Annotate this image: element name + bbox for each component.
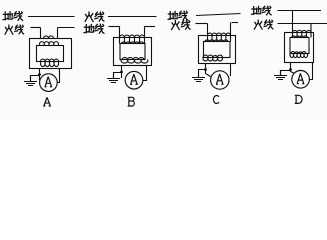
ammeter circle, circuit A [40, 74, 58, 92]
wire: earth line right segment with corner, circuit B [145, 26, 156, 28]
wire: left lead from case bottom to ammeter, circuit A [39, 69, 41, 81]
ammeter circle, circuit C [211, 71, 229, 89]
ground symbol, circuit B [113, 73, 115, 79]
winding bumps on motor bottom edge, circuit B [122, 58, 144, 60]
wire: ground branch, circuit A [31, 76, 40, 82]
coil vertical tails to motor top, circuit C [208, 36, 231, 42]
winding loops below motor bottom edge, circuit B [121, 60, 148, 64]
wire: right lead into appliance, circuit B [144, 27, 146, 38]
label: live wire text (huo xian) circuit B [85, 12, 93, 21]
winding arcs above motor top edge, circuit A [40, 42, 59, 46]
wire: live line right segment with corner, circuit C [232, 22, 239, 24]
junction dot (node), circuit D [289, 68, 292, 71]
coil on case top edge between leads, circuit B [120, 35, 145, 37]
winding loops below motor bottom edge, circuit A [41, 62, 59, 67]
wire: right lead from case bottom to ammeter, circuit C [230, 64, 232, 77]
option label D [295, 95, 302, 103]
coil vertical tails to motor top, circuit B [120, 38, 145, 44]
option label A [43, 97, 50, 106]
winding bumps on motor top edge, circuit C [205, 40, 228, 42]
wire: right lead from case bottom to ammeter, circuit B [143, 66, 147, 81]
ammeter letter A, circuit D [297, 73, 305, 83]
coil on case top edge between leads, circuit C [208, 33, 231, 35]
label: earth wire text (di xian) circuit D [252, 6, 261, 14]
wire: left lead into appliance, circuit C [207, 24, 209, 36]
wire: ground branch, circuit D [281, 71, 291, 76]
wire: left lead from earth line into appliance, circuit D [292, 11, 294, 33]
wire: earth line (top, to image edge) circuit D [278, 10, 322, 12]
wire: earth line (top) circuit A [28, 16, 75, 18]
motor core (inner rectangle), circuit D [290, 38, 309, 54]
label: live wire text (huo xian) circuit C [172, 21, 180, 30]
wire: ground branch, circuit C [199, 70, 206, 78]
label: live wire text (huo xian) circuit A [5, 25, 13, 34]
wire: live line (top) circuit B [108, 16, 157, 18]
wire: left lead into appliance, circuit B [119, 27, 121, 38]
coil vertical tails to motor top, circuit D [293, 33, 312, 38]
winding bumps on motor bottom edge, circuit A [41, 59, 59, 61]
winding bumps on motor top edge, circuit D [292, 36, 308, 38]
winding loops below motor bottom edge, circuit D [290, 54, 307, 58]
label: earth wire text (di xian) circuit C [168, 11, 177, 19]
winding bumps on motor bottom edge, circuit C [203, 55, 223, 57]
junction dot (node), circuit C [204, 68, 207, 71]
winding loops below motor bottom edge, circuit C [203, 58, 222, 61]
motor core (inner rectangle), circuit B [120, 44, 145, 60]
wire: live line (full, to image edge) circuit D [278, 23, 327, 25]
ammeter letter A, circuit B [130, 74, 138, 84]
wire: right lead into appliance, circuit A [57, 28, 59, 39]
wire: earth line (top, slightly tilted scan) circuit C [196, 14, 241, 16]
wire: right lead into appliance, circuit C [230, 23, 232, 36]
wire: live line left segment with corner, circuit C [196, 23, 208, 25]
wire: ground branch, circuit B [114, 73, 122, 79]
option label C [213, 96, 219, 104]
ammeter circle, circuit D [292, 71, 310, 89]
junction dot (node), circuit B [120, 71, 123, 74]
wire: right lead from case bottom to ammeter, circuit A [57, 69, 59, 83]
wire: right lead from live line into appliance, circuit D [310, 24, 312, 33]
wire: earth line left segment with corner, circuit B [109, 26, 120, 28]
appliance metal case (outer rectangle), circuit D [285, 33, 314, 63]
ground symbol, circuit C [198, 70, 200, 78]
coil on case top edge between leads, circuit D [293, 30, 312, 32]
wire: left lead from case bottom to ammeter, circuit D [291, 63, 295, 74]
label: earth wire text (di xian) circuit B [84, 25, 94, 33]
label: earth wire text (di xian) circuit A [3, 12, 12, 20]
appliance metal case (outer rectangle), circuit B [114, 38, 152, 66]
wire: left lead from case bottom to ammeter, circuit B [121, 66, 123, 79]
appliance metal case (outer rectangle), circuit A [30, 39, 72, 69]
ammeter letter A, circuit C [216, 74, 224, 84]
ground symbol, circuit A [30, 76, 32, 82]
motor core (inner rectangle), circuit A [37, 46, 64, 62]
wire: left lead into appliance, circuit A [40, 28, 42, 39]
wire: left lead from case bottom to ammeter, circuit C [206, 64, 211, 77]
wire: live line right segment with corner, circuit A [58, 27, 75, 29]
wire: right lead from case bottom to ammeter, circuit D [310, 63, 313, 80]
appliance metal case (outer rectangle), circuit C [199, 36, 236, 64]
junction dot (node), circuit A [38, 73, 41, 76]
ammeter letter A, circuit A [45, 77, 53, 87]
wire: live line left segment with corner, circuit A [31, 27, 41, 29]
option label B [128, 97, 135, 106]
coil on case top edge between leads, circuit A [44, 36, 54, 39]
motor core (inner rectangle), circuit C [204, 42, 231, 58]
ground symbol, circuit D [280, 71, 282, 76]
winding bumps on motor top edge, circuit B [122, 42, 144, 44]
winding bumps on motor bottom edge, circuit D [291, 52, 306, 54]
ammeter circle, circuit B [125, 71, 143, 89]
label: live wire text (huo xian) circuit D [254, 20, 262, 29]
